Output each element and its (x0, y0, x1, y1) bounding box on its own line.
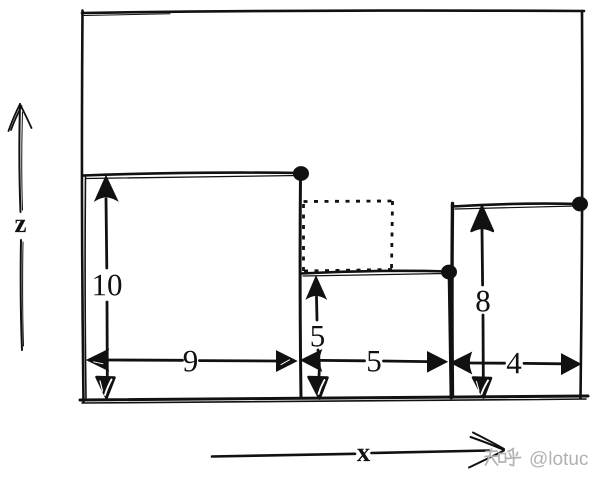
dimension 9 right arrowhead (277, 352, 296, 371)
building B1 top edge echo (86, 176, 298, 179)
dimension 10 up arrowhead (96, 177, 117, 200)
outer box top edge (82, 11, 584, 13)
dimension 10 down arrowhead (97, 377, 115, 398)
dimension 4 right arrowhead (562, 355, 580, 374)
dimension 5 vertical shaft (317, 297, 320, 376)
label 9 (184, 351, 197, 372)
dimension 8 down arrowhead (473, 378, 491, 398)
building B3 top edge (452, 204, 580, 207)
outer box top edge echo (84, 14, 170, 16)
dotted square (303, 201, 393, 271)
dimension 5 down arrowhead (309, 377, 328, 399)
dimension 8 up arrowhead (472, 207, 494, 232)
building B2 right edge (449, 272, 451, 398)
building B1 right edge / B2 left edge (299, 174, 303, 398)
key point dot P2 (442, 266, 456, 279)
watermark @lotuc (531, 451, 588, 467)
dimension 9 shaft (107, 360, 277, 361)
dimension 5 up arrowhead (308, 278, 326, 298)
building B3 left edge (450, 204, 454, 398)
label x (357, 449, 370, 461)
label 4 (507, 353, 521, 373)
ground line echo (82, 399, 586, 403)
dimension 8 shaft (482, 230, 483, 376)
z axis shaft (19, 104, 22, 350)
dimension 5 left arrowhead (302, 351, 321, 370)
ground line (80, 396, 588, 400)
building B2 top edge echo (303, 274, 445, 277)
z axis shaft echo (22, 112, 24, 346)
building B1 top edge (83, 173, 301, 176)
dimension 10 shaft (106, 199, 107, 376)
building B1 left edge (84, 176, 87, 398)
label 10 (94, 275, 121, 296)
dimension 4 left arrowhead (452, 354, 471, 373)
watermark 知乎 glyphs (485, 449, 521, 466)
label 8 (476, 291, 489, 312)
label z (15, 220, 26, 232)
label 5 vertical (312, 326, 324, 347)
dimension 9 left arrowhead (88, 351, 108, 370)
key point dot P1 (294, 167, 308, 180)
dimension 5 right arrowhead (428, 353, 446, 371)
z axis arrowhead (9, 104, 32, 131)
x axis arrowhead (469, 433, 504, 468)
outer box left edge (82, 11, 84, 403)
label 5 horizontal (368, 351, 380, 372)
building B2 top edge (301, 271, 449, 274)
key point dot P3 (573, 198, 587, 211)
outer box right edge (581, 11, 583, 398)
dimension 4 shaft (470, 362, 562, 366)
dimension 5 horizontal shaft (320, 360, 428, 361)
x axis shaft (212, 451, 489, 457)
building B3 top edge echo (455, 206, 575, 209)
